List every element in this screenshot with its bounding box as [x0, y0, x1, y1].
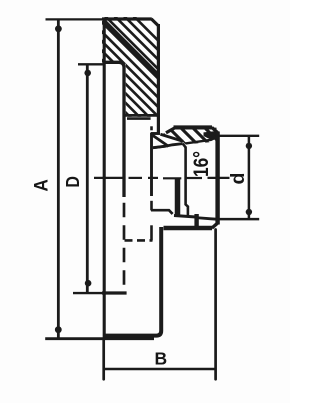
- hub boss hidden edge dashed: [123, 203, 126, 293]
- top right chamfer: [151, 19, 158, 26]
- extension line d top: [219, 135, 259, 137]
- extension line B right: [214, 230, 217, 380]
- thread end block: [194, 214, 198, 228]
- svg-text:d: d: [227, 173, 249, 185]
- taper left wall: [186, 147, 188, 217]
- extension line D bottom: [73, 292, 102, 294]
- mouth chamfer dark wedge: [204, 131, 217, 140]
- body left edge: [103, 18, 106, 340]
- bore entry step: [183, 144, 186, 148]
- dot A bottom: [55, 326, 62, 333]
- body right edge and part bottom edge: [103, 227, 161, 336]
- dot A top: [55, 25, 62, 32]
- taper top diagonal: [160, 134, 183, 141]
- dimension line d: [248, 136, 251, 219]
- dot D top: [84, 70, 91, 77]
- taper bottom wall right: [196, 218, 219, 220]
- dot d top: [246, 143, 252, 149]
- dot D bottom: [85, 280, 92, 287]
- svg-text:A: A: [30, 179, 51, 191]
- extension line d bottom: [219, 218, 259, 221]
- rim bottom edge: [124, 114, 158, 117]
- taper lower diagonal: [153, 135, 169, 146]
- flare lower boundary: [153, 146, 166, 148]
- thick hatch line: [104, 21, 159, 76]
- rim right edge: [157, 24, 160, 133]
- hidden socket right edge upper dash: [150, 126, 153, 130]
- centerline: [94, 177, 230, 180]
- stem mouth chamfer bottom: [212, 223, 218, 228]
- dot d bottom: [246, 209, 252, 215]
- socket right edge solid: [150, 133, 153, 196]
- socket step line: [151, 210, 173, 214]
- dimension line A: [57, 19, 60, 339]
- taper top wall: [186, 136, 219, 143]
- stem bottom edge: [164, 226, 213, 230]
- hidden socket bottom edge dashed: [125, 239, 153, 242]
- dimension line D: [86, 64, 89, 293]
- dimension line B: [104, 368, 216, 371]
- stem left flare chamfer: [166, 128, 175, 133]
- extension line B left: [102, 340, 105, 379]
- taper bottom wall: [174, 216, 196, 218]
- part top edge: [102, 17, 152, 20]
- hub bottom edge: [102, 291, 127, 294]
- hub boss outline: [104, 62, 124, 197]
- socket far edge: [175, 178, 181, 216]
- extension line A bottom: [45, 337, 154, 340]
- rim hatching: [13, 0, 258, 140]
- stem top edge: [174, 125, 213, 129]
- hidden socket top edge: [127, 117, 151, 120]
- extension line D top: [78, 63, 104, 65]
- stem wall hatching: [149, 120, 239, 150]
- strip bottom edge: [153, 144, 183, 148]
- svg-text:16°: 16°: [190, 151, 213, 177]
- stem mouth chamfer top: [212, 127, 218, 133]
- extension line A top: [46, 18, 105, 20]
- svg-text:B: B: [154, 349, 167, 369]
- rim edge bottom hook: [151, 132, 160, 135]
- stem right edge: [215, 132, 219, 225]
- svg-text:D: D: [62, 176, 83, 188]
- hidden socket right edge dashed: [150, 201, 153, 211]
